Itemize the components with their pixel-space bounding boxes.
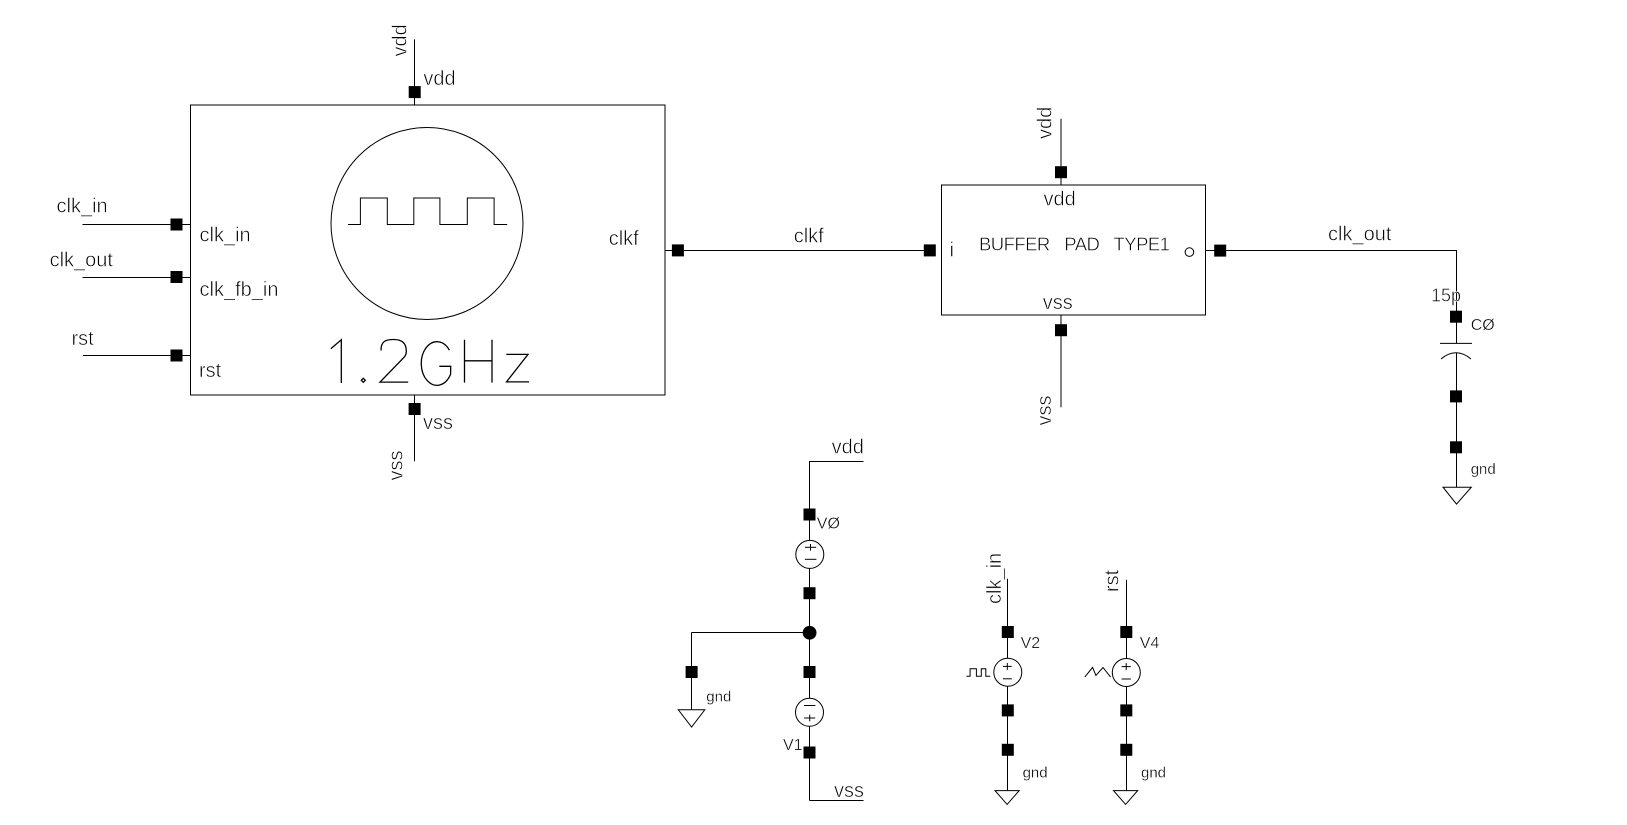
svg-text:gnd: gnd — [1023, 765, 1048, 782]
svg-text:vdd: vdd — [423, 68, 455, 90]
svg-text:vdd: vdd — [832, 436, 864, 458]
svg-text:clk_out: clk_out — [50, 250, 114, 272]
svg-text:15p: 15p — [1431, 286, 1461, 306]
svg-text:CØ: CØ — [1471, 317, 1495, 334]
svg-text:vdd: vdd — [1044, 189, 1076, 211]
svg-text:vss: vss — [1043, 292, 1073, 314]
svg-text:BUFFER PAD TYPE1: BUFFER PAD TYPE1 — [979, 233, 1170, 254]
svg-text:V2: V2 — [1021, 635, 1041, 652]
svg-text:clk_in: clk_in — [200, 225, 251, 247]
svg-text:gnd: gnd — [1471, 461, 1496, 478]
svg-text:clk_in: clk_in — [984, 553, 1006, 604]
svg-text:vss: vss — [834, 780, 864, 802]
svg-text:rst: rst — [199, 360, 222, 382]
svg-text:i: i — [950, 240, 954, 262]
svg-text:vdd: vdd — [390, 24, 412, 56]
svg-text:VØ: VØ — [817, 516, 840, 533]
svg-text:V4: V4 — [1140, 635, 1160, 652]
svg-text:vdd: vdd — [1035, 107, 1057, 139]
svg-text:vss: vss — [423, 412, 453, 434]
svg-text:rst: rst — [72, 328, 95, 350]
svg-text:clkf: clkf — [609, 228, 639, 250]
svg-text:clk_in: clk_in — [57, 196, 108, 218]
svg-text:clkf: clkf — [794, 225, 824, 247]
svg-text:gnd: gnd — [1141, 765, 1166, 782]
svg-text:clk_out: clk_out — [1328, 224, 1392, 246]
svg-text:V1: V1 — [783, 737, 803, 754]
svg-text:vss: vss — [386, 451, 408, 481]
svg-text:rst: rst — [1101, 569, 1123, 592]
svg-text:clk_fb_in: clk_fb_in — [200, 279, 279, 301]
svg-text:gnd: gnd — [706, 689, 731, 706]
svg-text:vss: vss — [1034, 396, 1056, 426]
